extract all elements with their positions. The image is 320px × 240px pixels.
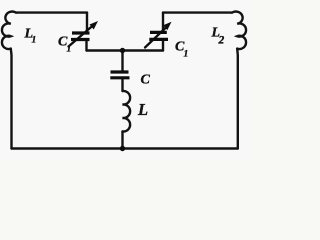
wire top-right segment — [163, 11, 232, 13]
svg-text:C: C — [141, 73, 151, 88]
wire top-left segment — [16, 11, 87, 13]
junction node at bottom rail — [120, 146, 125, 151]
label C1 left — [58, 35, 71, 55]
inductor L — [123, 91, 131, 132]
arrow of variable capacitor C1 right — [145, 22, 172, 48]
inductor L1 — [2, 12, 16, 49]
inductor L2 — [232, 12, 246, 49]
arrow of variable capacitor C1 left — [69, 21, 99, 47]
capacitor C plates — [111, 70, 129, 73]
wire right side — [236, 49, 239, 149]
wire from top rail into C1 left — [86, 13, 88, 32]
svg-text:1: 1 — [32, 36, 37, 46]
svg-text:2: 2 — [218, 35, 225, 47]
wire from C1 right up to top rail — [162, 13, 164, 32]
capacitor C1 left plates — [72, 31, 90, 34]
wire from L down to bottom rail — [121, 132, 123, 149]
svg-text:1: 1 — [184, 50, 189, 60]
svg-text:L: L — [137, 100, 148, 119]
junction node at mid wire — [120, 48, 125, 53]
svg-text:1: 1 — [67, 45, 72, 55]
wire from C down to L — [121, 80, 123, 92]
label L2 — [211, 26, 225, 47]
wire from C1 left down to mid wire — [85, 41, 87, 51]
wire from mid wire up into C1 right — [162, 41, 164, 51]
wire from junction down to C — [121, 51, 123, 71]
wire middle horizontal — [87, 49, 164, 51]
wire left side — [10, 49, 13, 149]
capacitor C1 right plates — [150, 31, 167, 34]
wire bottom rail — [12, 147, 238, 149]
label L1 — [24, 27, 37, 46]
label C1 right — [175, 40, 188, 60]
